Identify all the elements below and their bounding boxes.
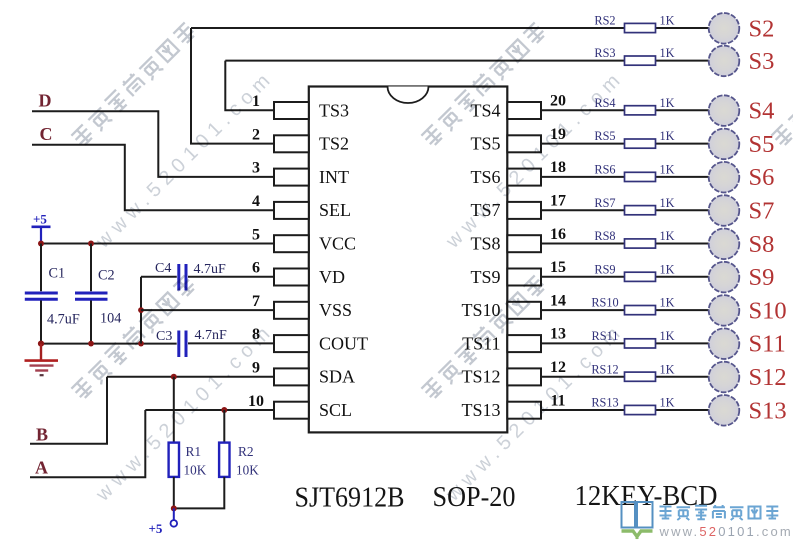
pin 11 number bbox=[550, 392, 565, 409]
watermark band chinese top-left bbox=[71, 22, 196, 147]
pin 6 VD box bbox=[274, 269, 309, 286]
label 1K of RS5 bbox=[660, 129, 675, 143]
wire node A riser bbox=[30, 410, 145, 477]
label S2 bbox=[749, 15, 775, 42]
wire ground rail bbox=[41, 343, 176, 345]
svg-text:SCL: SCL bbox=[319, 400, 352, 420]
svg-text:2: 2 bbox=[252, 126, 260, 143]
svg-text:COUT: COUT bbox=[319, 333, 368, 353]
svg-text:B: B bbox=[36, 425, 48, 445]
label 1K of RS3 bbox=[660, 46, 675, 60]
pin 4 SEL box bbox=[274, 202, 309, 219]
label C3 bbox=[156, 329, 172, 344]
watermark band chinese mid-left bbox=[71, 275, 196, 400]
touch pad S12 bbox=[709, 362, 740, 393]
svg-text:S4: S4 bbox=[749, 98, 775, 125]
svg-text:A: A bbox=[35, 458, 48, 478]
label RS11 bbox=[592, 329, 619, 343]
capacitor C4 4.7uF bbox=[141, 264, 274, 291]
wire pin1 TS3 trunk to S3 row bbox=[225, 61, 274, 111]
wire RS3 row bbox=[225, 60, 709, 62]
svg-text:10: 10 bbox=[248, 393, 264, 410]
junction VCC C2 bbox=[88, 241, 94, 247]
pin 2 number bbox=[252, 126, 260, 143]
svg-text:S7: S7 bbox=[749, 198, 775, 225]
wire RS11 row bbox=[541, 342, 709, 344]
+5 power terminal bottom bbox=[171, 508, 178, 526]
label S7 bbox=[749, 198, 775, 225]
svg-text:1K: 1K bbox=[660, 46, 675, 60]
touch pad S3 bbox=[709, 46, 740, 77]
wire RS10 row bbox=[541, 309, 709, 311]
svg-text:RS6: RS6 bbox=[594, 163, 615, 177]
logo chinese text bbox=[660, 505, 779, 520]
watermark band url bottom-left bbox=[91, 319, 278, 506]
wire VCC rail to pin5 bbox=[41, 243, 274, 245]
label RS8 bbox=[594, 229, 615, 243]
wire RS7 row bbox=[541, 209, 709, 211]
label S12 bbox=[749, 364, 787, 391]
pin 8 number bbox=[252, 326, 260, 343]
svg-text:1K: 1K bbox=[660, 129, 675, 143]
wire pin2 TS2 trunk to S2 row bbox=[191, 28, 274, 144]
pin 14 TS10 box bbox=[507, 302, 541, 319]
svg-text:C4: C4 bbox=[155, 261, 171, 276]
label S9 bbox=[749, 264, 775, 291]
wire node B riser bbox=[30, 377, 107, 444]
svg-text:14: 14 bbox=[550, 292, 566, 309]
label 1K of RS6 bbox=[660, 163, 675, 177]
label RS2 bbox=[594, 14, 615, 28]
pin 6 number bbox=[252, 260, 260, 277]
svg-text:20: 20 bbox=[550, 93, 566, 110]
svg-text:RS9: RS9 bbox=[594, 262, 615, 276]
svg-text:D: D bbox=[39, 91, 52, 111]
wire RS8 row bbox=[541, 243, 709, 245]
label RS3 bbox=[594, 46, 615, 60]
resistor RS5 1K bbox=[625, 139, 656, 148]
svg-text:18: 18 bbox=[550, 159, 566, 176]
pin 3 INT box bbox=[274, 169, 309, 186]
label 10K of R1 bbox=[184, 462, 207, 477]
label 10K of R2 bbox=[236, 462, 259, 477]
pin 12 TS12 box bbox=[507, 368, 541, 385]
resistor RS10 1K bbox=[625, 306, 656, 315]
pin 4 number bbox=[252, 193, 260, 210]
pin 10 number bbox=[248, 393, 264, 410]
svg-text:RS10: RS10 bbox=[591, 296, 618, 310]
svg-text:1K: 1K bbox=[660, 396, 675, 410]
label 104 of C2 bbox=[100, 311, 121, 327]
wire C to pin4 SEL bbox=[32, 145, 274, 210]
svg-text:S9: S9 bbox=[749, 264, 775, 291]
pin 1 label TS3 bbox=[319, 100, 349, 120]
wire SCL row to pin10 bbox=[145, 409, 274, 411]
svg-text:S6: S6 bbox=[749, 164, 775, 191]
svg-text:TS4: TS4 bbox=[470, 100, 500, 120]
svg-text:S10: S10 bbox=[749, 297, 787, 324]
svg-text:1K: 1K bbox=[660, 362, 675, 376]
wire D to pin3 INT bbox=[32, 111, 274, 177]
watermark band url top-left bbox=[91, 66, 278, 253]
wire RS13 row bbox=[541, 409, 709, 411]
label R1 bbox=[186, 444, 202, 459]
resistor R1 10K bbox=[169, 377, 179, 509]
svg-text:TS8: TS8 bbox=[470, 234, 500, 254]
pin 14 label TS10 bbox=[461, 300, 500, 320]
logo url www.520101.com bbox=[659, 524, 793, 539]
label S3 bbox=[749, 48, 775, 75]
svg-text:10K: 10K bbox=[184, 462, 207, 477]
label 1K of RS7 bbox=[660, 196, 675, 210]
svg-text:INT: INT bbox=[319, 167, 349, 187]
wire RS12 row bbox=[541, 376, 709, 378]
svg-text:S12: S12 bbox=[749, 364, 787, 391]
pin 20 label TS4 bbox=[470, 100, 500, 120]
svg-text:C3: C3 bbox=[156, 329, 172, 344]
label C4 bbox=[155, 261, 171, 276]
svg-text:5: 5 bbox=[252, 226, 260, 243]
svg-text:VCC: VCC bbox=[319, 234, 356, 254]
pin 14 number bbox=[550, 292, 566, 309]
node C label bbox=[40, 124, 53, 144]
pin 10 SCL box bbox=[274, 402, 309, 419]
label S11 bbox=[749, 331, 786, 358]
resistor RS9 1K bbox=[625, 272, 656, 281]
junction SDA R1 bbox=[171, 374, 177, 380]
pin 6 label VD bbox=[319, 267, 345, 287]
label S13 bbox=[749, 397, 787, 424]
svg-text:9: 9 bbox=[252, 360, 260, 377]
svg-text:R1: R1 bbox=[186, 444, 202, 459]
label 1K of RS8 bbox=[660, 229, 675, 243]
pin 16 number bbox=[550, 226, 566, 243]
resistor RS12 1K bbox=[625, 372, 656, 381]
pin 2 label TS2 bbox=[319, 134, 349, 154]
pin 1 TS3 box bbox=[274, 102, 309, 119]
svg-text:4.7nF: 4.7nF bbox=[195, 328, 228, 343]
junction gnd C2 bbox=[88, 341, 94, 347]
pin 19 number bbox=[550, 126, 566, 143]
label RS7 bbox=[594, 196, 615, 210]
svg-text:C2: C2 bbox=[98, 268, 115, 284]
label SOP-20 bbox=[433, 481, 516, 513]
pin 17 TS7 box bbox=[507, 202, 541, 219]
pin 7 number bbox=[252, 293, 260, 310]
label RS6 bbox=[594, 163, 615, 177]
pin 13 TS11 box bbox=[507, 335, 541, 352]
pin 5 number bbox=[252, 226, 260, 243]
pin 11 label TS13 bbox=[461, 400, 500, 420]
pin 7 label VSS bbox=[319, 300, 352, 320]
svg-text:1K: 1K bbox=[660, 96, 675, 110]
svg-text:15: 15 bbox=[550, 259, 566, 276]
pin 17 label TS7 bbox=[470, 200, 500, 220]
pin 19 TS5 box bbox=[507, 135, 541, 152]
touch pad S13 bbox=[709, 395, 740, 426]
svg-text:S2: S2 bbox=[749, 15, 775, 42]
label S10 bbox=[749, 297, 787, 324]
junction R1 R2 bottom bbox=[171, 505, 177, 511]
pin 15 number bbox=[550, 259, 566, 276]
svg-text:SDA: SDA bbox=[319, 367, 355, 387]
capacitor C1 4.7uF bbox=[25, 244, 58, 344]
wire VSS row to pin7 bbox=[141, 309, 274, 311]
svg-text:RS3: RS3 bbox=[594, 46, 615, 60]
label RS12 bbox=[591, 362, 618, 376]
touch pad S2 bbox=[709, 13, 740, 44]
touch pad S9 bbox=[709, 262, 740, 293]
touch pad S10 bbox=[709, 295, 740, 326]
svg-text:S13: S13 bbox=[749, 397, 787, 424]
pin 5 label VCC bbox=[319, 234, 356, 254]
resistor RS4 1K bbox=[625, 106, 656, 115]
node A label bbox=[35, 458, 48, 478]
pin 16 TS8 box bbox=[507, 235, 541, 252]
svg-text:4: 4 bbox=[252, 193, 260, 210]
pin 19 label TS5 bbox=[470, 134, 500, 154]
svg-text:S8: S8 bbox=[749, 231, 775, 258]
watermark band chinese top-right corner bbox=[771, 22, 793, 147]
pin 4 label SEL bbox=[319, 200, 351, 220]
wire SDA row to pin9 bbox=[107, 376, 274, 378]
svg-text:104: 104 bbox=[100, 311, 121, 327]
capacitor C3 4.7nF bbox=[176, 331, 274, 358]
node D label bbox=[39, 91, 52, 111]
svg-text:1K: 1K bbox=[660, 196, 675, 210]
pin 10 label SCL bbox=[319, 400, 352, 420]
svg-text:TS12: TS12 bbox=[461, 367, 500, 387]
label 4.7uF of C4 bbox=[194, 262, 227, 277]
resistor RS3 1K bbox=[625, 56, 656, 65]
svg-text:RS2: RS2 bbox=[594, 14, 615, 28]
svg-text:TS9: TS9 bbox=[470, 267, 500, 287]
pin 12 number bbox=[550, 359, 566, 376]
svg-text:VSS: VSS bbox=[319, 300, 352, 320]
label RS9 bbox=[594, 262, 615, 276]
svg-text:S11: S11 bbox=[749, 331, 786, 358]
op-amp U1 SJT6912B IC body bbox=[309, 87, 508, 433]
svg-text:1K: 1K bbox=[660, 262, 675, 276]
pin 3 label INT bbox=[319, 167, 349, 187]
label 1K of RS10 bbox=[660, 296, 675, 310]
junction VCC C1 bbox=[38, 241, 44, 247]
pin 8 COUT box bbox=[274, 335, 309, 352]
pin 1 number bbox=[252, 93, 260, 110]
pin 16 label TS8 bbox=[470, 234, 500, 254]
svg-text:RS7: RS7 bbox=[594, 196, 615, 210]
svg-text:S3: S3 bbox=[749, 48, 775, 75]
svg-text:1K: 1K bbox=[660, 163, 675, 177]
wire RS6 row bbox=[541, 176, 709, 178]
resistor RS13 1K bbox=[625, 405, 656, 414]
label R2 bbox=[238, 444, 254, 459]
label 4.7uF of C1 bbox=[47, 312, 80, 328]
wire RS2 row bbox=[191, 27, 709, 29]
svg-text:RS8: RS8 bbox=[594, 229, 615, 243]
label 1K of RS9 bbox=[660, 262, 675, 276]
svg-text:TS3: TS3 bbox=[319, 100, 349, 120]
svg-text:www.520101.com: www.520101.com bbox=[659, 524, 793, 539]
pin 2 TS2 box bbox=[274, 135, 309, 152]
label 1K of RS13 bbox=[660, 396, 675, 410]
touch pad S7 bbox=[709, 195, 740, 226]
wire RS4 row bbox=[541, 109, 709, 111]
pin 9 SDA box bbox=[274, 368, 309, 385]
svg-text:4.7uF: 4.7uF bbox=[47, 312, 80, 328]
junction gnd VSS branch bbox=[138, 341, 144, 347]
svg-text:1K: 1K bbox=[660, 229, 675, 243]
label 1K of RS4 bbox=[660, 96, 675, 110]
svg-text:R2: R2 bbox=[238, 444, 254, 459]
junction gnd C1 bbox=[38, 341, 44, 347]
touch pad S11 bbox=[709, 328, 740, 359]
junction SCL R2 bbox=[221, 407, 227, 413]
resistor RS6 1K bbox=[625, 172, 656, 181]
watermark band chinese top-center bbox=[421, 22, 546, 147]
label RS5 bbox=[594, 129, 615, 143]
resistor RS8 1K bbox=[625, 239, 656, 248]
pin 20 number bbox=[550, 93, 566, 110]
svg-text:1K: 1K bbox=[660, 329, 675, 343]
label SJT6912B bbox=[295, 482, 405, 514]
wire VSS vertical branch bbox=[140, 277, 142, 344]
svg-text:TS13: TS13 bbox=[461, 400, 500, 420]
junction VSS row bbox=[138, 307, 144, 313]
label C2 bbox=[98, 268, 115, 284]
label +5 bottom bbox=[149, 521, 163, 536]
label RS13 bbox=[591, 396, 618, 410]
svg-text:TS2: TS2 bbox=[319, 134, 349, 154]
touch pad S4 bbox=[709, 95, 740, 126]
pin 9 label SDA bbox=[319, 367, 355, 387]
wire RS9 row bbox=[541, 276, 709, 278]
svg-text:SJT6912B: SJT6912B bbox=[295, 482, 405, 514]
svg-text:1K: 1K bbox=[660, 296, 675, 310]
svg-text:17: 17 bbox=[550, 193, 566, 210]
pin 5 VCC box bbox=[274, 235, 309, 252]
pin 17 number bbox=[550, 193, 566, 210]
watermark band chinese center-bottom bbox=[421, 275, 546, 400]
svg-text:RS5: RS5 bbox=[594, 129, 615, 143]
svg-text:1K: 1K bbox=[660, 14, 675, 28]
label RS10 bbox=[591, 296, 618, 310]
pin 18 number bbox=[550, 159, 566, 176]
svg-text:+5: +5 bbox=[33, 212, 47, 227]
+5 power symbol top-left bbox=[32, 212, 51, 244]
pin 15 label TS9 bbox=[470, 267, 500, 287]
node B label bbox=[36, 425, 48, 445]
svg-text:3: 3 bbox=[252, 160, 260, 177]
pin 18 TS6 box bbox=[507, 169, 541, 186]
svg-text:C: C bbox=[40, 124, 53, 144]
pin 13 label TS11 bbox=[462, 333, 500, 353]
resistor RS11 1K bbox=[625, 339, 656, 348]
watermark band url bottom-center bbox=[441, 319, 628, 506]
resistor R2 10K bbox=[174, 410, 230, 508]
label S6 bbox=[749, 164, 775, 191]
svg-text:7: 7 bbox=[252, 293, 260, 310]
label C1 bbox=[49, 265, 66, 281]
label S4 bbox=[749, 98, 775, 125]
touch pad S6 bbox=[709, 162, 740, 193]
label 12KEY-BCD bbox=[575, 480, 718, 512]
svg-text:SEL: SEL bbox=[319, 200, 351, 220]
watermark band url center bbox=[441, 66, 628, 253]
ground bbox=[25, 344, 59, 376]
label 1K of RS2 bbox=[660, 14, 675, 28]
pin 18 label TS6 bbox=[470, 167, 500, 187]
svg-text:6: 6 bbox=[252, 260, 260, 277]
label 4.7nF of C3 bbox=[195, 328, 228, 343]
svg-text:C1: C1 bbox=[49, 265, 66, 281]
label 1K of RS12 bbox=[660, 362, 675, 376]
resistor RS7 1K bbox=[625, 206, 656, 215]
svg-text:+5: +5 bbox=[149, 521, 163, 536]
pin 12 label TS12 bbox=[461, 367, 500, 387]
pin 3 number bbox=[252, 160, 260, 177]
svg-text:13: 13 bbox=[550, 326, 566, 343]
wire RS5 row bbox=[541, 143, 709, 145]
svg-text:12KEY-BCD: 12KEY-BCD bbox=[575, 480, 718, 512]
pin 7 VSS box bbox=[274, 302, 309, 319]
label RS4 bbox=[594, 96, 615, 110]
pin 13 number bbox=[550, 326, 566, 343]
svg-text:4.7uF: 4.7uF bbox=[194, 262, 227, 277]
touch pad S8 bbox=[709, 229, 740, 260]
svg-text:16: 16 bbox=[550, 226, 566, 243]
svg-text:RS13: RS13 bbox=[591, 396, 618, 410]
resistor RS2 1K bbox=[625, 23, 656, 32]
svg-text:10K: 10K bbox=[236, 462, 259, 477]
svg-text:S5: S5 bbox=[749, 131, 775, 158]
label S8 bbox=[749, 231, 775, 258]
pin 15 TS9 box bbox=[507, 269, 541, 286]
pin 8 label COUT bbox=[319, 333, 368, 353]
svg-text:TS5: TS5 bbox=[470, 134, 500, 154]
svg-text:VD: VD bbox=[319, 267, 345, 287]
pin 11 TS13 box bbox=[507, 402, 541, 419]
label 1K of RS11 bbox=[660, 329, 675, 343]
capacitor C2 104 bbox=[75, 244, 108, 344]
logo book icon bbox=[622, 502, 653, 538]
pin 9 number bbox=[252, 360, 260, 377]
label S5 bbox=[749, 131, 775, 158]
pin 20 TS4 box bbox=[507, 102, 541, 119]
touch pad S5 bbox=[709, 129, 740, 160]
